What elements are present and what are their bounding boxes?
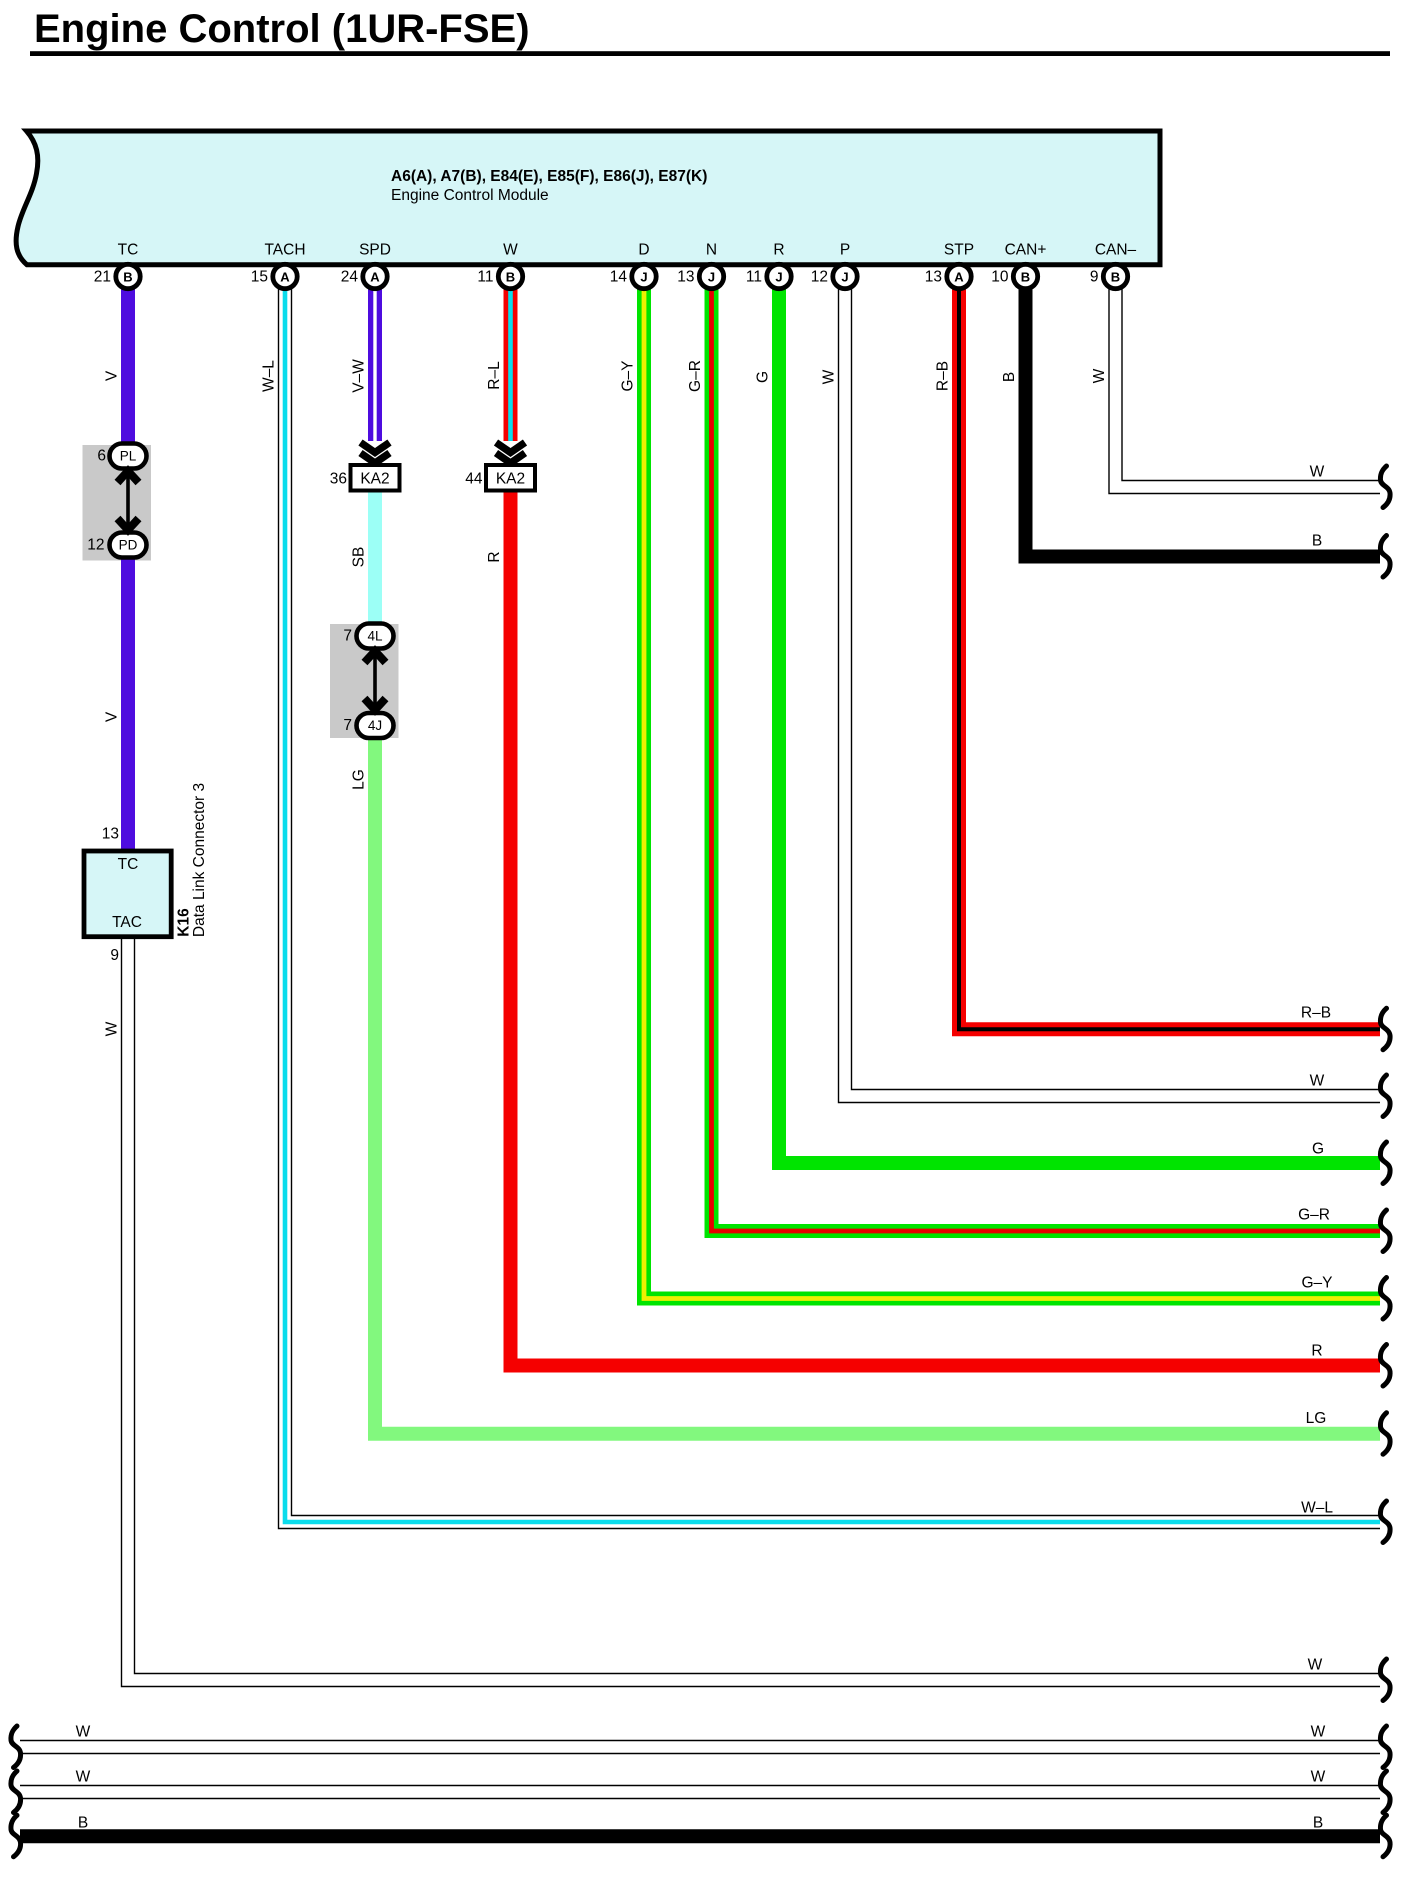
pin CAN– terminal 9(B) on ECM [1090, 242, 1137, 289]
break symbol right end of W–L wire at y=1522 [1380, 1501, 1390, 1543]
svg-text:W: W [1311, 1724, 1326, 1741]
wire G from R pin 11 down and right [779, 289, 1380, 1163]
svg-text:W: W [1310, 464, 1325, 481]
svg-text:4L: 4L [367, 629, 383, 644]
svg-text:R–B: R–B [1301, 1005, 1331, 1022]
svg-text:J: J [708, 269, 715, 284]
svg-text:TC: TC [118, 242, 139, 259]
pin TC terminal 21(B) on ECM [94, 242, 140, 289]
svg-text:STP: STP [944, 242, 974, 259]
connector block 4L/4J (gray) [330, 624, 399, 738]
svg-text:14: 14 [610, 269, 628, 286]
svg-text:7: 7 [343, 717, 352, 734]
label G–Y at right wire end [1301, 1275, 1332, 1292]
svg-text:KA2: KA2 [360, 471, 389, 488]
break symbol right end of G–R wire at y=1231 [1380, 1210, 1390, 1252]
label W rotated on vertical wire [821, 369, 838, 384]
label SB rotated on vertical wire [351, 547, 368, 568]
svg-text:G: G [755, 371, 772, 383]
pin D terminal 14(J) on ECM [610, 242, 656, 289]
wire W from P pin 12 down and right [845, 289, 1380, 1096]
connector PD pin 12 [87, 533, 146, 558]
pin N terminal 13(J) on ECM [677, 242, 723, 289]
svg-text:A6(A), A7(B), E84(E), E85(F),: A6(A), A7(B), E84(E), E85(F), E86(J), E8… [391, 168, 707, 185]
break symbol right end of LG wire at y=1433.7 [1380, 1413, 1390, 1455]
label LG rotated on vertical wire [351, 769, 368, 790]
svg-text:K16: K16 [176, 908, 193, 937]
svg-text:G–R: G–R [1298, 1207, 1330, 1224]
svg-text:B: B [1021, 269, 1030, 284]
break symbol right end of B wire at y=1836.3 [1380, 1815, 1390, 1857]
K16 pin number 13 [102, 826, 119, 843]
svg-text:44: 44 [465, 471, 483, 488]
svg-text:7: 7 [343, 628, 352, 645]
label G–R rotated on vertical wire [687, 360, 704, 392]
K16 reference designator [176, 908, 193, 937]
label V–W rotated on vertical wire [351, 359, 368, 393]
svg-text:G–Y: G–Y [1301, 1275, 1332, 1292]
label R at right wire end [1311, 1343, 1322, 1360]
svg-text:13: 13 [925, 269, 942, 286]
svg-text:W: W [1311, 1769, 1326, 1786]
svg-text:PL: PL [120, 449, 137, 464]
pin W terminal 11(B) on ECM [477, 242, 522, 289]
wire V from PD to K16 TC pin 13 [121, 552, 135, 853]
label G at right wire end [1312, 1141, 1324, 1158]
label V rotated on vertical wire [104, 370, 121, 381]
svg-text:R–B: R–B [935, 361, 952, 391]
wire B horizontal bus (full width) [20, 1829, 1380, 1843]
ECM box header text line 2 [391, 187, 549, 204]
break symbol right end of G wire at y=1163 [1380, 1142, 1390, 1184]
label W–L at right wire end [1301, 1500, 1333, 1517]
svg-text:W: W [104, 1021, 121, 1036]
svg-text:TC: TC [118, 856, 139, 873]
label B on bottom bus at x=1318 [1313, 1815, 1323, 1832]
svg-text:N: N [706, 242, 717, 259]
svg-text:LG: LG [351, 769, 368, 790]
break symbol right end of B wire at y=556.5 [1380, 536, 1390, 578]
svg-text:J: J [640, 269, 647, 284]
label W on bottom bus at x=83 [76, 1769, 91, 1786]
label W rotated on vertical wire [1091, 368, 1108, 383]
pin TACH terminal 15(A) on ECM [251, 242, 306, 289]
svg-text:W: W [1091, 368, 1108, 383]
svg-text:V–W: V–W [351, 359, 368, 393]
label G rotated on vertical wire [755, 371, 772, 383]
label V rotated on vertical wire [104, 711, 121, 722]
svg-text:36: 36 [330, 471, 347, 488]
wire LG from 4J down and right [375, 736, 1380, 1434]
svg-text:A: A [370, 269, 380, 284]
break symbol right end of W wire at y=487 [1380, 466, 1390, 508]
label W on bottom bus at x=83 [76, 1724, 91, 1741]
pin SPD terminal 24(A) on ECM [341, 242, 391, 289]
wire V-W from SPD pin 24 to KA2 arrow [368, 289, 382, 441]
pin R terminal 11(J) on ECM [746, 242, 791, 289]
label B rotated on vertical wire [1001, 372, 1018, 382]
svg-text:B: B [1001, 372, 1018, 382]
svg-text:13: 13 [102, 826, 119, 843]
svg-text:J: J [841, 269, 848, 284]
break symbol left end of W wire [11, 1771, 21, 1813]
svg-text:24: 24 [341, 269, 359, 286]
svg-text:B: B [506, 269, 515, 284]
svg-text:21: 21 [94, 269, 111, 286]
connector PL pin 6 [97, 444, 146, 469]
pin CAN+ terminal 10(B) on ECM [991, 242, 1046, 289]
K16 terminal label TAC [112, 914, 142, 931]
wire G-Y from D pin 14 down and right [644, 289, 1380, 1299]
svg-text:12: 12 [811, 269, 828, 286]
svg-text:11: 11 [477, 269, 493, 286]
svg-text:P: P [840, 242, 850, 259]
svg-text:9: 9 [110, 947, 119, 964]
break symbol right end of R wire at y=1365.5 [1380, 1345, 1390, 1387]
svg-text:W: W [1310, 1073, 1325, 1090]
break symbol left end of B wire [11, 1815, 21, 1857]
svg-text:B: B [123, 269, 132, 284]
svg-text:CAN–: CAN– [1095, 242, 1137, 259]
svg-text:Data Link Connector 3: Data Link Connector 3 [191, 783, 208, 937]
label R–B rotated on vertical wire [935, 361, 952, 391]
svg-text:R: R [773, 242, 784, 259]
svg-text:V: V [104, 370, 121, 381]
label W at right wire end [1310, 1073, 1325, 1090]
label W at right wire end [1308, 1657, 1323, 1674]
ECM module box A6/A7/E84/E85/E86/E87 (wavy break on left edge) [16, 131, 1160, 265]
svg-text:W–L: W–L [1301, 1500, 1333, 1517]
svg-text:B: B [1111, 269, 1120, 284]
wire W-L from TACH pin 15, down and right [285, 289, 1380, 1522]
label R–B at right wire end [1301, 1005, 1331, 1022]
label LG at right wire end [1306, 1410, 1327, 1427]
svg-text:G–Y: G–Y [620, 360, 637, 391]
wire W from CAN- pin 9 down and right [1116, 289, 1381, 487]
svg-text:Engine Control Module: Engine Control Module [391, 187, 549, 204]
wire W from K16 TAC pin 9 down and right [128, 935, 1380, 1680]
svg-text:B: B [1312, 533, 1322, 550]
break symbol right end of G–Y wire at y=1298.5 [1380, 1278, 1390, 1320]
connector 4L pin 7 [343, 624, 393, 649]
K16 Data Link Connector 3 box [84, 851, 171, 937]
label W–L rotated on vertical wire [261, 360, 278, 392]
connector 4J pin 7 [343, 713, 393, 738]
wire V from TC pin 21 to PL [121, 289, 135, 449]
wire R-B from STP pin 13 down and right [959, 289, 1380, 1029]
svg-text:W: W [821, 369, 838, 384]
double arrow between 4L and 4J [365, 651, 386, 710]
svg-text:6: 6 [97, 448, 106, 465]
svg-text:TAC: TAC [112, 914, 142, 931]
pin P terminal 12(J) on ECM [811, 242, 857, 289]
svg-text:W: W [1308, 1657, 1323, 1674]
connector block PL/PD (gray) [83, 445, 152, 561]
svg-text:W: W [76, 1724, 91, 1741]
break symbol right end of W wire at y=1747 [1380, 1726, 1390, 1768]
svg-text:LG: LG [1306, 1410, 1327, 1427]
svg-text:SPD: SPD [359, 242, 391, 259]
svg-text:B: B [78, 1815, 88, 1832]
svg-text:A: A [954, 269, 964, 284]
label G–R at right wire end [1298, 1207, 1330, 1224]
label B at right wire end [1312, 533, 1322, 550]
svg-text:11: 11 [746, 269, 762, 286]
svg-text:W: W [76, 1769, 91, 1786]
wire R-L from W pin 11 to KA2 arrow [504, 289, 518, 441]
svg-text:12: 12 [87, 537, 104, 554]
label W on bottom bus at x=1318 [1311, 1724, 1326, 1741]
svg-text:R: R [1311, 1343, 1322, 1360]
title Engine Control (1UR-FSE) [34, 7, 530, 51]
svg-text:D: D [638, 242, 649, 259]
wire G-R from N pin 13 down and right [712, 289, 1381, 1231]
K16 name Data Link Connector 3 [191, 783, 208, 937]
svg-text:R–L: R–L [486, 361, 503, 390]
title underline rule [30, 51, 1390, 56]
svg-text:13: 13 [677, 269, 694, 286]
svg-text:B: B [1313, 1815, 1323, 1832]
svg-text:TACH: TACH [264, 242, 305, 259]
label B on bottom bus at x=83 [78, 1815, 88, 1832]
svg-text:PD: PD [119, 538, 138, 553]
svg-text:4J: 4J [368, 718, 382, 733]
label W at right wire end [1310, 464, 1325, 481]
svg-text:J: J [775, 269, 782, 284]
svg-text:W: W [503, 242, 518, 259]
label G–Y rotated on vertical wire [620, 360, 637, 391]
svg-text:KA2: KA2 [496, 471, 525, 488]
svg-text:CAN+: CAN+ [1005, 242, 1047, 259]
svg-text:9: 9 [1090, 269, 1099, 286]
wire B from CAN+ pin 10 down and right [1026, 289, 1381, 557]
pin STP terminal 13(A) on ECM [925, 242, 974, 289]
wire W horizontal bus 2 (full width) [20, 1785, 1380, 1799]
K16 pin number 9 [110, 947, 119, 964]
svg-text:15: 15 [251, 269, 268, 286]
wire W horizontal bus 1 (full width) [20, 1740, 1380, 1754]
svg-text:R: R [486, 551, 503, 562]
break symbol right end of W wire at y=1792 [1380, 1771, 1390, 1813]
ECM box header text line 1 [391, 168, 707, 185]
svg-text:W–L: W–L [261, 360, 278, 392]
double arrow between PL and PD [118, 471, 139, 530]
label R–L rotated on vertical wire [486, 361, 503, 390]
svg-text:SB: SB [351, 547, 368, 568]
svg-text:V: V [104, 711, 121, 722]
label W rotated on vertical wire [104, 1021, 121, 1036]
K16 terminal label TC [118, 856, 139, 873]
break symbol right end of W wire at y=1680 [1380, 1659, 1390, 1701]
break symbol left end of W wire [11, 1726, 21, 1768]
label W on bottom bus at x=1318 [1311, 1769, 1326, 1786]
label R rotated on vertical wire [486, 551, 503, 562]
svg-text:G: G [1312, 1141, 1324, 1158]
junction connector KA2 pin 36 with entry arrows [330, 443, 400, 491]
wire SB from KA2 36 to 4L [368, 492, 382, 626]
junction connector KA2 pin 44 with entry arrows [465, 443, 535, 491]
svg-text:G–R: G–R [687, 360, 704, 392]
svg-text:10: 10 [991, 269, 1009, 286]
break symbol right end of W wire at y=1096 [1380, 1075, 1390, 1117]
svg-text:Engine Control (1UR-FSE): Engine Control (1UR-FSE) [34, 7, 530, 51]
break symbol right end of R–B wire at y=1029.3 [1380, 1008, 1390, 1050]
wire R from KA2 44 down and right [511, 492, 1381, 1366]
svg-text:A: A [280, 269, 290, 284]
